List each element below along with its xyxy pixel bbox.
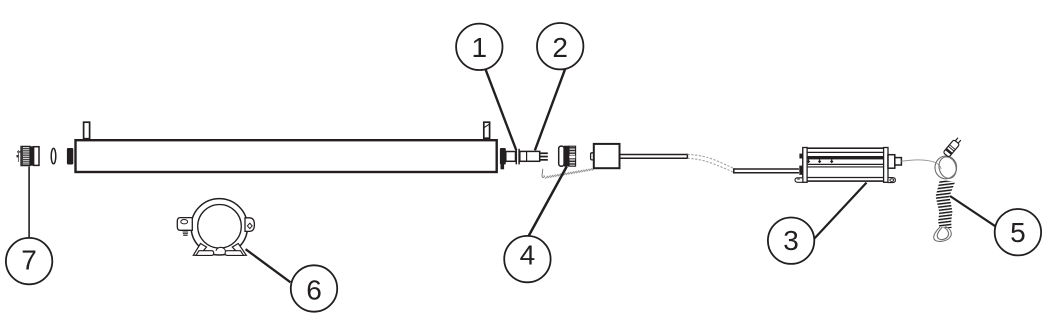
- knurled end cap (part 7): [21, 146, 39, 165]
- balloon 4: [504, 236, 550, 282]
- ballast right end plate: [884, 148, 888, 183]
- lamp pins: [540, 152, 548, 160]
- clamp base center arc: [216, 247, 225, 250]
- leader line 2: [535, 69, 565, 151]
- lamp socket connector (part 4): [559, 146, 576, 167]
- balloon 3: [768, 218, 814, 264]
- leader line 6: [246, 249, 291, 282]
- power plug: [943, 137, 962, 158]
- leader line 4: [529, 167, 567, 236]
- leader line 7: [28, 167, 30, 239]
- chamber tube body: [76, 140, 497, 172]
- lamp body (part 2): [520, 151, 540, 161]
- ballast body (part 3): [803, 148, 887, 181]
- ballast input nub: [799, 154, 802, 159]
- thin output wire: [901, 160, 941, 169]
- balloon 1: [456, 24, 502, 70]
- cable strain relief at ballast: [799, 166, 802, 175]
- clamp left tab with screw: [177, 218, 192, 236]
- ballast rivets: [807, 159, 834, 163]
- right black collar: [500, 148, 506, 165]
- balloon 6: [291, 265, 337, 311]
- left black collar: [67, 148, 73, 165]
- clamp base: [193, 244, 246, 256]
- end cap retaining clip (left of part 7): [17, 150, 22, 162]
- leader line 5: [950, 196, 996, 227]
- svg-text:4: 4: [520, 240, 536, 271]
- ballast right mounting flange: [888, 178, 895, 183]
- set screw below right collar: [501, 165, 505, 170]
- svg-text:3: 3: [783, 225, 799, 256]
- mounting clamp ring (part 6): [191, 199, 247, 255]
- svg-text:7: 7: [21, 244, 37, 275]
- lamp flange ring: [516, 149, 519, 163]
- clamp right tab: [245, 218, 254, 232]
- safety hook: [542, 169, 544, 178]
- power cable: straight segment 1: [620, 154, 688, 159]
- power cable: straight segment 2: [734, 168, 799, 173]
- svg-text:6: 6: [306, 274, 322, 305]
- cord bottom loop: [934, 227, 952, 242]
- leader line 1: [486, 70, 517, 150]
- balloon 2: [537, 23, 583, 69]
- ballast left mounting flange: [795, 178, 803, 183]
- power cable: curved segment: [688, 154, 734, 172]
- hatched lanyard cord: [545, 168, 595, 179]
- svg-text:1: 1: [472, 32, 488, 63]
- coiled cord: [936, 180, 956, 228]
- balloon 7: [6, 238, 52, 284]
- lens disc: [51, 148, 56, 163]
- svg-text:5: 5: [1010, 217, 1026, 248]
- svg-text:2: 2: [552, 32, 568, 63]
- ballast left end plate: [803, 148, 807, 183]
- cord loops (part 5): [934, 155, 959, 181]
- balloon 5: [995, 209, 1041, 255]
- right vent tab on tube: [484, 122, 490, 138]
- junction box: [591, 144, 620, 168]
- left vent tab on tube: [84, 122, 90, 139]
- ballast output connector steps: [888, 155, 901, 169]
- lamp base cylinder (part 1): [506, 152, 516, 162]
- leader line 3: [814, 183, 866, 239]
